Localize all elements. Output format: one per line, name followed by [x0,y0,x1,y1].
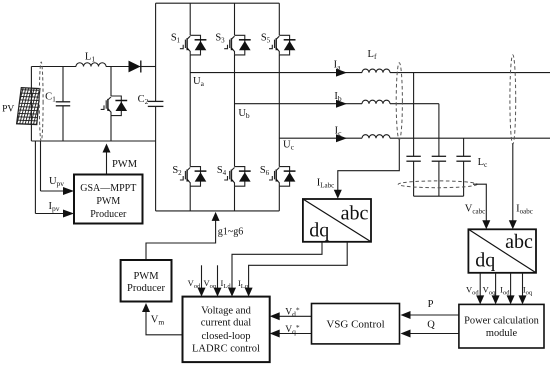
svg-text:Ioabc: Ioabc [516,204,533,216]
svg-text:ILq: ILq [238,278,249,290]
svg-text:ILabc: ILabc [317,178,335,190]
svg-text:current dual: current dual [201,318,252,329]
svg-text:Q: Q [427,320,435,331]
svg-text:S1: S1 [171,33,181,45]
svg-text:VSG Control: VSG Control [326,319,384,331]
svg-text:S4: S4 [217,165,227,177]
svg-text:GSA—MPPT: GSA—MPPT [80,183,136,194]
svg-text:Ia: Ia [334,60,342,72]
svg-text:dq: dq [309,220,329,242]
svg-text:Upv: Upv [49,176,64,188]
svg-text:Voltage and: Voltage and [201,305,251,316]
svg-text:abc: abc [341,203,369,225]
svg-text:Producer: Producer [90,209,127,220]
svg-text:Uc: Uc [283,140,295,152]
svg-text:Ic: Ic [335,126,343,138]
svg-text:S2: S2 [172,165,182,177]
svg-text:g1~g6: g1~g6 [218,227,243,238]
svg-text:Vod: Vod [466,285,479,297]
svg-text:Ua: Ua [193,76,205,88]
svg-text:Voq: Voq [483,285,496,297]
svg-text:Vod: Vod [188,278,201,290]
svg-text:Producer: Producer [127,283,165,294]
svg-text:Ub: Ub [238,108,250,120]
svg-text:Vcabc: Vcabc [465,204,485,216]
svg-text:Voq: Voq [203,278,216,290]
svg-text:PWM: PWM [133,271,159,282]
svg-text:LADRC control: LADRC control [192,344,260,355]
svg-text:abc: abc [505,231,533,253]
svg-text:C2: C2 [138,94,149,106]
svg-text:Power calculation: Power calculation [464,316,540,327]
svg-text:C1: C1 [45,92,56,104]
svg-text:PV: PV [2,105,14,115]
svg-text:S5: S5 [261,33,271,45]
svg-text:Lc: Lc [478,157,488,169]
svg-text:S6: S6 [260,165,270,177]
svg-text:Lf: Lf [368,49,377,61]
svg-text:PWM: PWM [96,196,120,207]
svg-text:L1: L1 [85,52,95,64]
svg-text:P: P [428,299,434,310]
svg-text:ILd: ILd [221,278,232,290]
svg-text:dq: dq [475,250,495,272]
svg-text:PWM: PWM [112,159,138,170]
svg-text:Ib: Ib [334,91,342,103]
svg-text:module: module [486,328,518,339]
svg-text:Ipv: Ipv [49,201,60,213]
svg-text:closed-loop: closed-loop [202,331,251,342]
svg-text:Iod: Iod [500,285,510,297]
svg-text:Vm: Vm [151,315,165,327]
svg-text:Ioq: Ioq [523,285,533,297]
svg-text:S3: S3 [215,33,225,45]
